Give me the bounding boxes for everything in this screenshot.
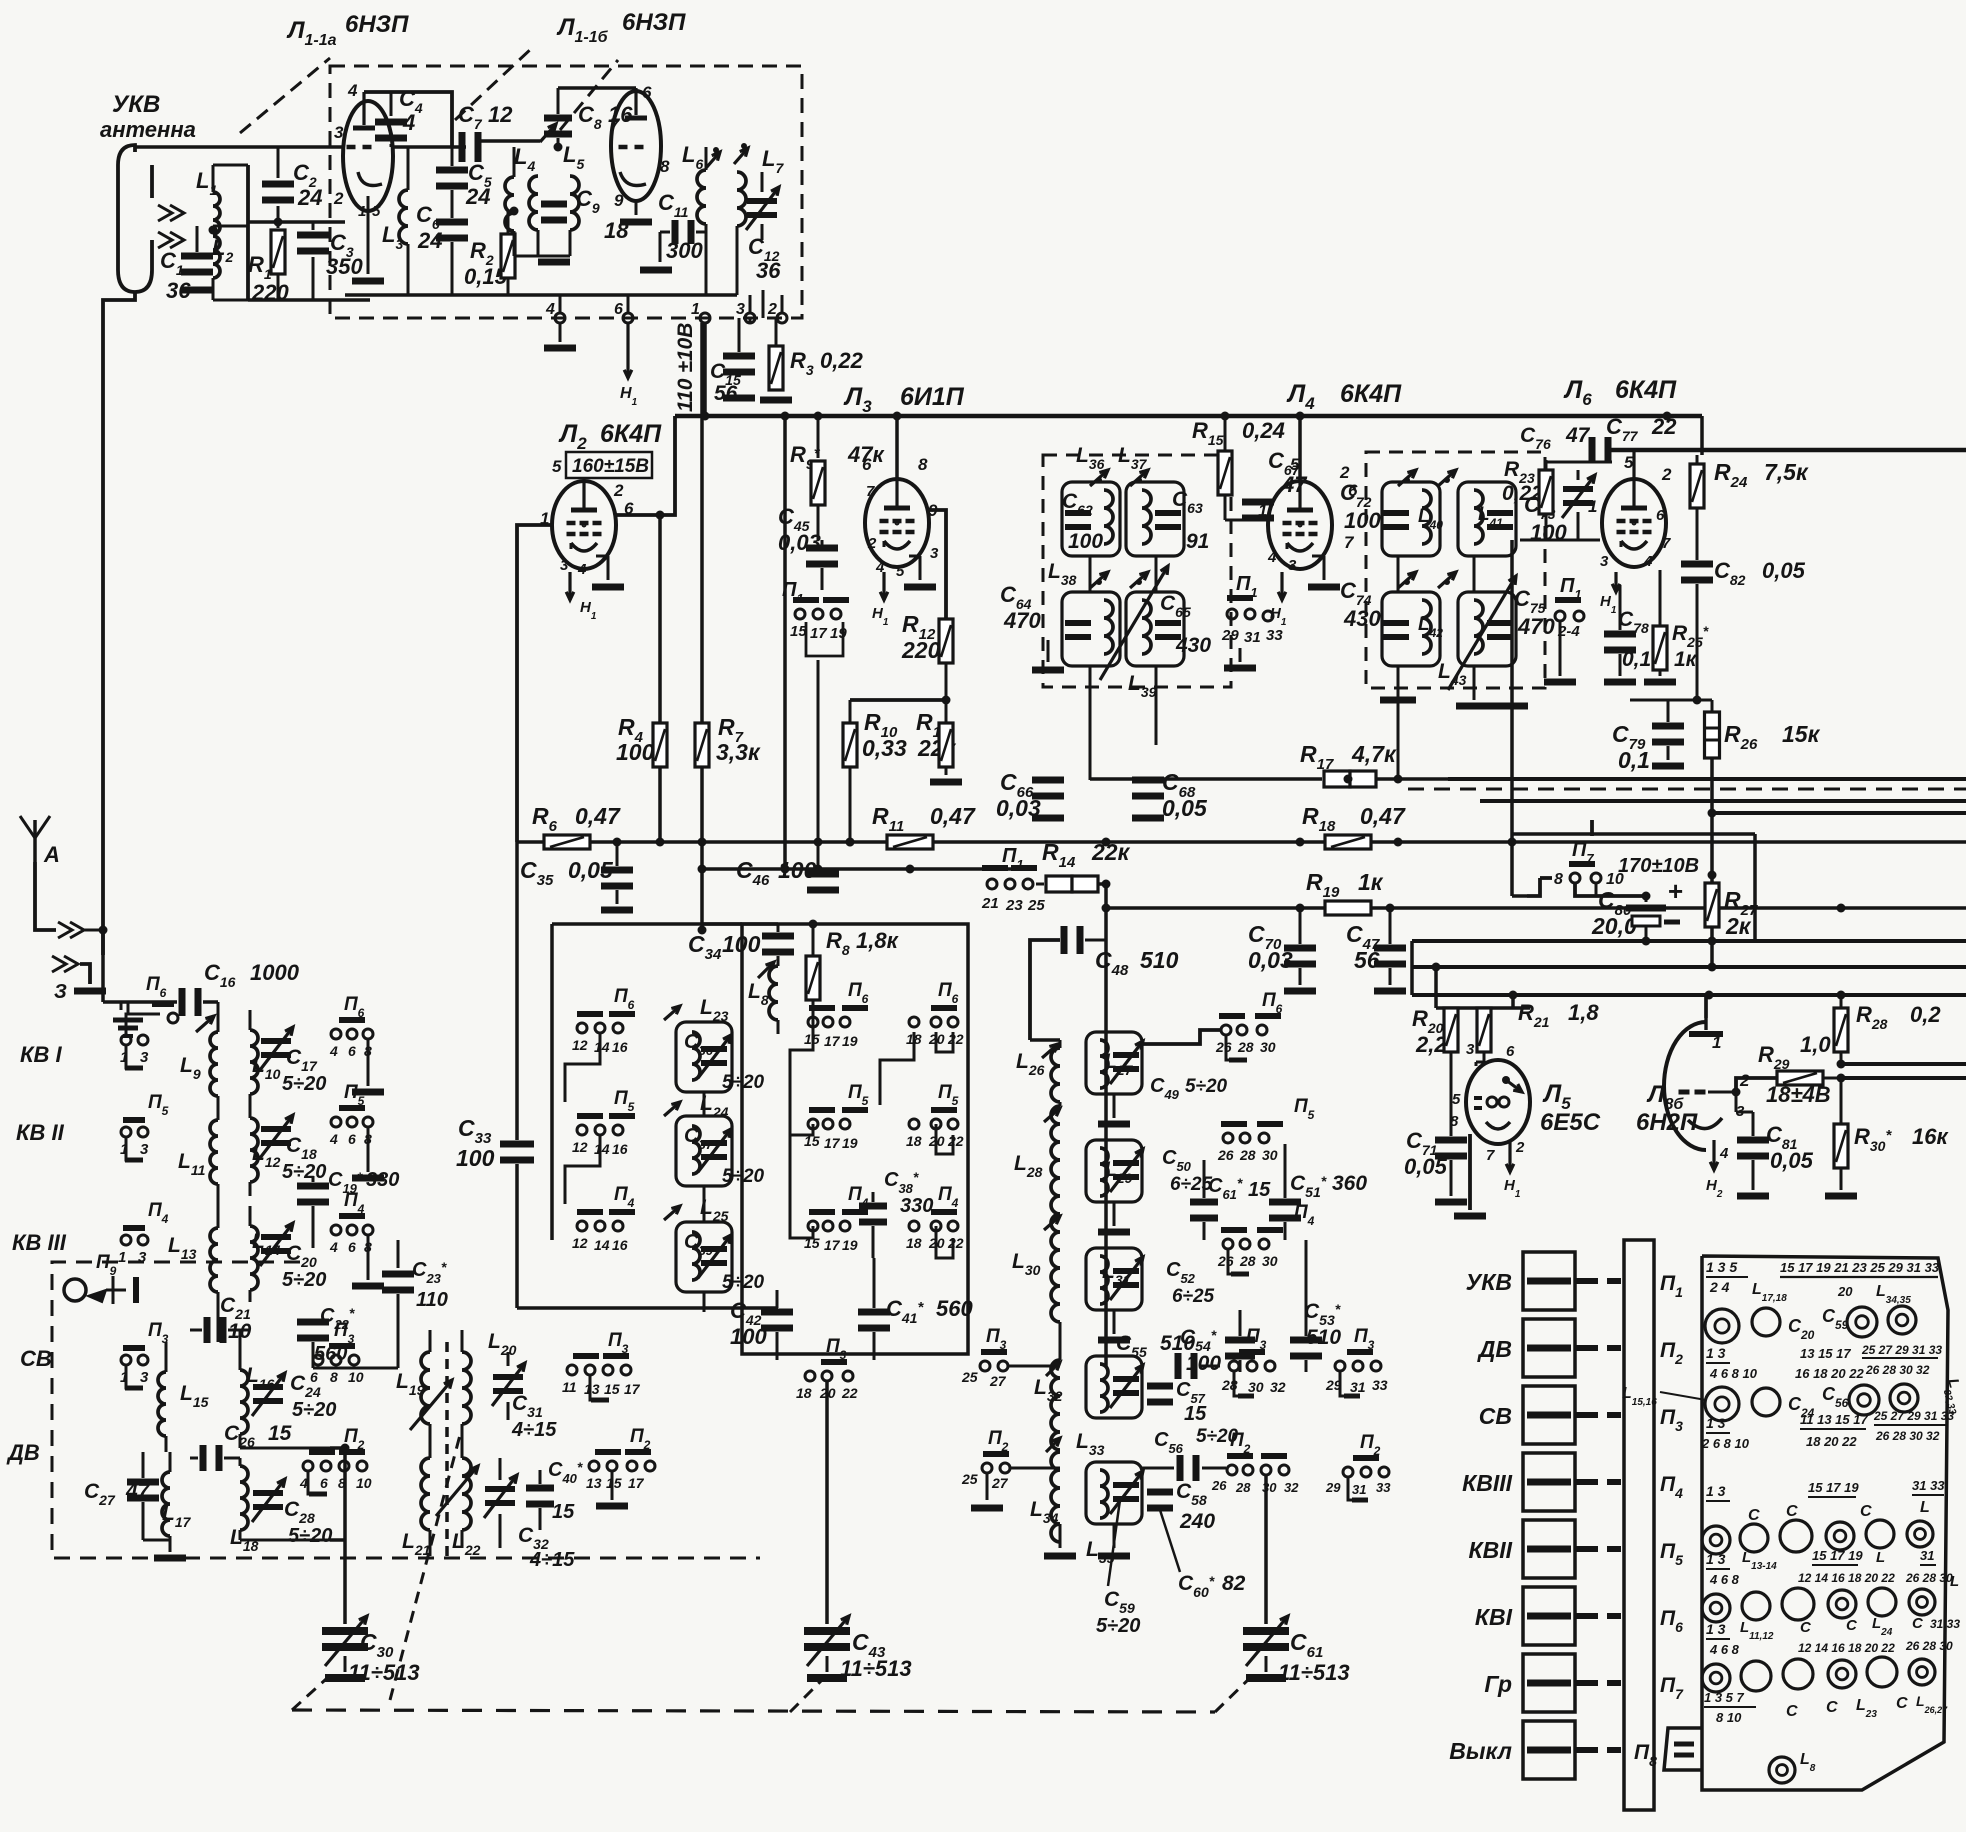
svg-text:25: 25 bbox=[961, 1369, 978, 1385]
gang diagonal to C30 bbox=[292, 1670, 336, 1710]
svg-text:16 18 20 22: 16 18 20 22 bbox=[1795, 1366, 1864, 1381]
svg-text:6: 6 bbox=[320, 1475, 328, 1491]
svg-text:4: 4 bbox=[545, 301, 555, 318]
antenna UKV folded dipole bbox=[118, 145, 152, 292]
svg-text:16: 16 bbox=[612, 1237, 628, 1253]
svg-text:13: 13 bbox=[584, 1381, 600, 1397]
wire line 941 bbox=[1412, 939, 1966, 943]
wire П7 wiring bbox=[1575, 884, 1646, 896]
svg-text:14: 14 bbox=[594, 1039, 610, 1055]
П8 tab bbox=[1664, 1728, 1702, 1770]
svg-text:6К4П: 6К4П bbox=[1340, 380, 1402, 408]
trimmer arrows top bbox=[1090, 470, 1108, 486]
svg-text:470: 470 bbox=[1517, 614, 1555, 639]
svg-text:4: 4 bbox=[329, 1239, 338, 1255]
svg-text:26: 26 bbox=[1215, 1039, 1232, 1055]
wire Л8б cathode to C81 bbox=[1736, 1111, 1753, 1114]
svg-text:1: 1 bbox=[1588, 497, 1597, 516]
dashed leader to Л1а bbox=[240, 58, 330, 133]
svg-text:21: 21 bbox=[981, 895, 999, 912]
svg-text:ДВ: ДВ bbox=[1477, 1336, 1512, 1362]
svg-text:А: А bbox=[43, 842, 60, 867]
svg-text:КВI: КВI bbox=[1475, 1604, 1513, 1630]
svg-text:560: 560 bbox=[936, 1296, 973, 1321]
svg-text:5÷20: 5÷20 bbox=[1185, 1076, 1228, 1097]
svg-text:0,47: 0,47 bbox=[575, 803, 621, 829]
wire osc to C43 bbox=[825, 1382, 829, 1624]
wire L1-L2 tap bbox=[213, 225, 248, 228]
svg-text:5÷20: 5÷20 bbox=[722, 1272, 765, 1293]
svg-text:100: 100 bbox=[616, 739, 655, 765]
svg-text:2: 2 bbox=[613, 481, 624, 500]
earth stub bbox=[120, 1002, 123, 1010]
board kv2 coils bbox=[1702, 1594, 1730, 1622]
svg-text:8: 8 bbox=[1450, 1113, 1459, 1130]
svg-text:25: 25 bbox=[961, 1471, 978, 1487]
svg-text:+: + bbox=[1668, 876, 1683, 906]
svg-text:110: 110 bbox=[416, 1289, 448, 1311]
board kv1 coils bbox=[1702, 1664, 1730, 1692]
wire vertical 785 feed bbox=[783, 416, 787, 869]
svg-text:29: 29 bbox=[1221, 627, 1239, 644]
wire 1513 to Л5 bbox=[1484, 1007, 1513, 1009]
svg-text:30: 30 bbox=[1260, 1039, 1276, 1055]
svg-text:СВ: СВ bbox=[1479, 1403, 1512, 1429]
svg-text:31: 31 bbox=[1244, 629, 1261, 646]
svg-text:430: 430 bbox=[1343, 606, 1381, 631]
svg-text:5÷20: 5÷20 bbox=[282, 1269, 326, 1291]
svg-text:16к: 16к bbox=[1912, 1124, 1949, 1149]
svg-text:2: 2 bbox=[767, 301, 777, 318]
heater arrow Л5 bbox=[1508, 1142, 1511, 1172]
svg-text:4 6 8 10: 4 6 8 10 bbox=[1709, 1366, 1758, 1381]
svg-text:3: 3 bbox=[140, 1141, 149, 1158]
svg-text:12: 12 bbox=[572, 1235, 588, 1251]
cathode bar Л1а bbox=[352, 278, 384, 285]
wire IF2 verticals bbox=[1397, 556, 1400, 592]
svg-text:антенна: антенна bbox=[100, 117, 196, 142]
svg-text:100: 100 bbox=[1344, 508, 1381, 533]
svg-text:4 6 8: 4 6 8 bbox=[1709, 1572, 1740, 1587]
svg-text:5÷20: 5÷20 bbox=[282, 1073, 326, 1095]
svg-text:15 17 19: 15 17 19 bbox=[1812, 1548, 1863, 1563]
svg-text:1 3: 1 3 bbox=[1706, 1551, 1726, 1567]
wire line 801 bbox=[1480, 799, 1966, 803]
svg-text:16: 16 bbox=[612, 1141, 628, 1157]
wire top rail to cascade bbox=[552, 922, 742, 926]
svg-text:11: 11 bbox=[562, 1379, 577, 1395]
wire Л2 cathode gnd bbox=[596, 555, 608, 558]
switch П6 1-3 bbox=[121, 1035, 131, 1045]
svg-text:19: 19 bbox=[830, 625, 847, 642]
wire 1592 vertical bbox=[1591, 820, 1593, 896]
series cap C58 out wire bbox=[1177, 1455, 1184, 1481]
svg-text:27: 27 bbox=[991, 1475, 1009, 1491]
wire C33 bottom rail bbox=[517, 1306, 778, 1310]
svg-text:7: 7 bbox=[1662, 535, 1671, 552]
wire Л4 cathode gnd bbox=[1312, 555, 1324, 558]
svg-text:8: 8 bbox=[330, 1369, 338, 1385]
svg-text:18: 18 bbox=[906, 1133, 922, 1149]
svg-text:1: 1 bbox=[691, 301, 700, 318]
svg-text:33: 33 bbox=[1376, 1480, 1391, 1495]
svg-text:C: C bbox=[1826, 1699, 1838, 1716]
svg-text:17: 17 bbox=[810, 625, 827, 642]
svg-text:1,8: 1,8 bbox=[1568, 1000, 1599, 1025]
wire right col verticals bbox=[1410, 941, 1414, 995]
svg-text:6: 6 bbox=[348, 1131, 356, 1147]
svg-text:0,05: 0,05 bbox=[1162, 795, 1208, 821]
tube Л2 6К4П bbox=[583, 524, 585, 526]
svg-text:350: 350 bbox=[326, 254, 363, 279]
svg-text:15: 15 bbox=[268, 1422, 292, 1445]
svg-text:17: 17 bbox=[624, 1381, 641, 1397]
svg-text:14: 14 bbox=[594, 1237, 610, 1253]
junction dots buses bbox=[846, 838, 855, 847]
svg-text:4: 4 bbox=[1267, 549, 1277, 566]
svg-text:0,22: 0,22 bbox=[820, 348, 864, 373]
svg-text:0,2: 0,2 bbox=[1910, 1002, 1941, 1027]
wire tube1a leads bbox=[337, 146, 343, 149]
svg-text:15: 15 bbox=[1248, 1179, 1271, 1201]
svg-text:22: 22 bbox=[1651, 414, 1677, 439]
ground below C1 bbox=[181, 287, 213, 294]
svg-text:470: 470 bbox=[1003, 608, 1041, 633]
svg-text:C: C bbox=[1846, 1617, 1858, 1634]
svg-text:15: 15 bbox=[552, 1501, 575, 1523]
wire Л3 top bbox=[895, 416, 899, 479]
switch board outline bbox=[1702, 1256, 1948, 1790]
wire Л3 cathode gnd bbox=[909, 555, 920, 558]
svg-text:1,0: 1,0 bbox=[1800, 1032, 1831, 1057]
svg-text:22: 22 bbox=[947, 1235, 964, 1251]
heater arrow Н1 Л2 bbox=[568, 572, 571, 600]
svg-text:6Н2П: 6Н2П bbox=[1636, 1109, 1698, 1136]
board kv3 coils bbox=[1702, 1526, 1730, 1554]
tube Л3 6И1П bbox=[896, 522, 898, 524]
svg-text:8: 8 bbox=[1554, 871, 1563, 888]
svg-text:31: 31 bbox=[1920, 1548, 1934, 1563]
svg-text:23: 23 bbox=[1005, 897, 1023, 914]
svg-text:510: 510 bbox=[1160, 1332, 1195, 1355]
svg-text:3: 3 bbox=[334, 123, 344, 142]
svg-text:100: 100 bbox=[778, 857, 817, 883]
svg-text:2: 2 bbox=[333, 189, 344, 208]
svg-text:0,24: 0,24 bbox=[1242, 418, 1285, 443]
wire l-chain down bbox=[1059, 1102, 1061, 1106]
svg-text:110 ±10В: 110 ±10В bbox=[674, 323, 697, 412]
svg-text:2: 2 bbox=[867, 535, 877, 552]
band button КВII bbox=[1523, 1520, 1575, 1578]
svg-text:240: 240 bbox=[1179, 1510, 1215, 1533]
wire Л8б grid node bbox=[1735, 1092, 1738, 1112]
svg-text:C: C bbox=[1912, 1615, 1924, 1632]
wire pin4 ground bbox=[559, 300, 562, 313]
svg-text:91: 91 bbox=[1186, 530, 1209, 553]
svg-text:Гр: Гр bbox=[1484, 1671, 1512, 1697]
wire anode bus B+ bbox=[675, 414, 1702, 419]
svg-text:24: 24 bbox=[297, 185, 322, 210]
band button СВ bbox=[1523, 1386, 1575, 1444]
svg-text:5: 5 bbox=[1452, 1091, 1461, 1108]
svg-text:6: 6 bbox=[348, 1043, 356, 1059]
wire L31 can gnd bbox=[1113, 1310, 1116, 1334]
svg-text:26 28 30: 26 28 30 bbox=[1905, 1571, 1953, 1585]
wire bus 995 junction verticals bbox=[1511, 995, 1515, 1008]
wire П6 mid links bbox=[565, 1034, 600, 1102]
svg-text:32: 32 bbox=[1284, 1480, 1299, 1495]
wire R14 junction down bbox=[1104, 884, 1108, 1366]
svg-text:220: 220 bbox=[901, 637, 941, 663]
svg-text:15: 15 bbox=[1184, 1403, 1207, 1425]
wire Л2 anode bbox=[616, 416, 675, 515]
svg-text:6И1П: 6И1П bbox=[900, 383, 965, 411]
svg-text:100: 100 bbox=[456, 1145, 495, 1171]
svg-text:11 13 15 17: 11 13 15 17 bbox=[1800, 1412, 1868, 1427]
svg-text:7: 7 bbox=[866, 483, 875, 500]
wire ukv bottom rail bbox=[248, 298, 370, 302]
wire lines 1064 1078 right bbox=[1841, 1062, 1966, 1066]
svg-text:C: C bbox=[1786, 1503, 1798, 1520]
svg-text:25 27 29 31 33: 25 27 29 31 33 bbox=[1861, 1343, 1942, 1357]
svg-text:4 6 8: 4 6 8 bbox=[1709, 1642, 1740, 1657]
svg-text:СВ: СВ bbox=[20, 1346, 52, 1371]
svg-text:6: 6 bbox=[310, 1369, 318, 1385]
svg-text:6÷25: 6÷25 bbox=[1170, 1174, 1213, 1195]
svg-text:L: L bbox=[1950, 1573, 1959, 1590]
wire AGC line R6 bbox=[517, 840, 1966, 844]
svg-text:3: 3 bbox=[736, 301, 745, 318]
svg-text:15 17 19: 15 17 19 bbox=[1808, 1480, 1859, 1495]
IF can L41/C73 bbox=[1458, 482, 1516, 556]
wire АПЧ box route bbox=[1512, 832, 1755, 836]
wire IF2 bottom bbox=[1397, 760, 1400, 779]
svg-text:15: 15 bbox=[606, 1475, 622, 1491]
svg-text:19: 19 bbox=[842, 1135, 858, 1151]
svg-text:КВ I: КВ I bbox=[20, 1042, 63, 1067]
gang diagonal to C43 bbox=[790, 1678, 824, 1712]
band button КВI bbox=[1523, 1587, 1575, 1645]
wire L27 to П6 bbox=[1142, 1030, 1220, 1044]
wire DV bottom to C30 col bbox=[330, 1538, 345, 1542]
hf can L/C58 bbox=[1086, 1462, 1142, 1524]
wire R19 line bbox=[1106, 906, 1966, 910]
wire 776 line right bbox=[1448, 777, 1966, 781]
svg-text:36: 36 bbox=[756, 258, 781, 283]
wire R24 col down bbox=[1696, 610, 1699, 700]
wire П2 to L34 bbox=[1011, 1467, 1060, 1470]
svg-text:8 10: 8 10 bbox=[1716, 1710, 1742, 1725]
svg-text:3: 3 bbox=[560, 557, 569, 574]
svg-text:4,7к: 4,7к bbox=[1351, 741, 1397, 767]
svg-text:ДВ: ДВ bbox=[6, 1440, 40, 1465]
svg-text:8: 8 bbox=[918, 455, 928, 474]
board coils dv right bbox=[1849, 1385, 1879, 1415]
svg-text:6: 6 bbox=[862, 455, 872, 474]
wire Л8б plate up bbox=[1704, 995, 1708, 1018]
svg-text:4: 4 bbox=[1643, 553, 1653, 570]
svg-text:9: 9 bbox=[614, 191, 624, 210]
svg-text:УКВ: УКВ bbox=[112, 91, 160, 118]
gang diagonal to C61 bbox=[1215, 1676, 1252, 1712]
wire C16 node down bbox=[217, 1002, 220, 1032]
wires trans to switches bbox=[462, 1329, 560, 1331]
svg-text:7,5к: 7,5к bbox=[1764, 459, 1809, 485]
wire grid row bbox=[391, 145, 466, 148]
switch shaft bar bbox=[1624, 1240, 1654, 1810]
svg-text:330: 330 bbox=[366, 1169, 399, 1191]
svg-text:5÷20: 5÷20 bbox=[292, 1399, 336, 1421]
svg-text:26: 26 bbox=[1217, 1147, 1234, 1163]
svg-text:16: 16 bbox=[612, 1039, 628, 1055]
wire 1436 к R20 rail bbox=[1434, 967, 1438, 1008]
svg-text:26 28 30: 26 28 30 bbox=[1905, 1639, 1953, 1653]
arrow through L19 bbox=[410, 1380, 452, 1430]
tube Л6 6К4П bbox=[1633, 522, 1635, 524]
svg-text:15: 15 bbox=[604, 1381, 620, 1397]
wire cans verticals bbox=[1089, 556, 1092, 592]
wire CB bottom to C30 bbox=[330, 1446, 345, 1450]
wire pin stubs bbox=[559, 295, 562, 313]
svg-text:30: 30 bbox=[1262, 1253, 1278, 1269]
svg-text:4÷15: 4÷15 bbox=[511, 1419, 557, 1441]
wire 1266 down to C61 bbox=[1264, 1476, 1268, 1624]
wire R7 column bbox=[700, 323, 704, 842]
svg-text:0,33: 0,33 bbox=[862, 735, 907, 761]
svg-text:4: 4 bbox=[347, 81, 358, 100]
wire vertical right top bbox=[1700, 416, 1704, 455]
svg-text:13: 13 bbox=[586, 1475, 602, 1491]
dashed UKV unit box bbox=[330, 66, 802, 318]
wire input node to tube bbox=[246, 165, 250, 300]
svg-text:30: 30 bbox=[1248, 1379, 1264, 1395]
svg-text:7: 7 bbox=[1486, 1147, 1495, 1164]
svg-text:18: 18 bbox=[906, 1235, 922, 1251]
svg-text:27: 27 bbox=[989, 1373, 1007, 1389]
svg-text:0,05: 0,05 bbox=[1770, 1148, 1814, 1173]
svg-text:3: 3 bbox=[1288, 557, 1297, 574]
svg-text:C: C bbox=[1860, 1503, 1872, 1520]
svg-text:3: 3 bbox=[1466, 1041, 1475, 1058]
ground kv1 bbox=[367, 1040, 370, 1086]
tuning arrow L39 bbox=[1100, 566, 1168, 680]
svg-text:30: 30 bbox=[1262, 1147, 1278, 1163]
svg-text:КВ II: КВ II bbox=[16, 1120, 65, 1145]
wire dipole feed arrows bbox=[158, 205, 184, 221]
heater arrow Н1 Л3 bbox=[882, 572, 885, 600]
svg-text:1: 1 bbox=[118, 1249, 126, 1266]
wire line C46/P1 bbox=[702, 867, 1030, 871]
svg-text:18: 18 bbox=[796, 1385, 812, 1401]
svg-text:33: 33 bbox=[1266, 627, 1283, 644]
ground ДВ bbox=[143, 1539, 170, 1542]
svg-text:22к: 22к bbox=[1091, 839, 1131, 865]
svg-text:1 3: 1 3 bbox=[1706, 1621, 1726, 1637]
svg-text:1к: 1к bbox=[1358, 869, 1384, 895]
wire cascade vertical bbox=[550, 924, 554, 1240]
svg-text:19: 19 bbox=[842, 1033, 858, 1049]
svg-text:6НЗП: 6НЗП bbox=[345, 11, 409, 38]
svg-text:3: 3 bbox=[1600, 553, 1609, 570]
svg-text:1: 1 bbox=[1712, 1033, 1721, 1052]
dashed tuner box left bbox=[52, 1262, 760, 1558]
svg-text:16: 16 bbox=[608, 102, 633, 127]
board coil C24 bbox=[1752, 1388, 1780, 1416]
svg-text:28: 28 bbox=[1237, 1039, 1254, 1055]
svg-text:3: 3 bbox=[140, 1369, 149, 1386]
dashed gang diagonal trans bbox=[390, 1435, 460, 1700]
svg-text:6: 6 bbox=[348, 1239, 356, 1255]
svg-text:15к: 15к bbox=[1782, 721, 1821, 747]
svg-text:17: 17 bbox=[824, 1237, 841, 1253]
svg-text:3: 3 bbox=[930, 545, 939, 562]
svg-text:13 15 17: 13 15 17 bbox=[1800, 1346, 1851, 1361]
svg-text:КВ III: КВ III bbox=[12, 1230, 67, 1255]
wire П7 from C77 node bbox=[1590, 820, 1594, 836]
wire box bottom rail bbox=[345, 293, 737, 296]
svg-text:12: 12 bbox=[572, 1139, 588, 1155]
svg-text:1,8к: 1,8к bbox=[856, 928, 900, 953]
wire line 967 bbox=[1412, 965, 1966, 969]
svg-text:C: C bbox=[1896, 1695, 1908, 1712]
board coil L17,18 bbox=[1705, 1309, 1739, 1343]
earth ground symbol bbox=[113, 1018, 143, 1023]
svg-text:4: 4 bbox=[1719, 1145, 1729, 1162]
wire mid column top entry bbox=[552, 1008, 582, 1028]
tuning arrow L43 bbox=[1448, 576, 1516, 690]
svg-text:6: 6 bbox=[642, 83, 652, 102]
hf can L/C57 bbox=[1086, 1356, 1142, 1418]
svg-text:5: 5 bbox=[552, 457, 562, 476]
board coil C20 bbox=[1752, 1308, 1780, 1336]
svg-text:15 17 19 21 23 25 29 31 33: 15 17 19 21 23 25 29 31 33 bbox=[1780, 1260, 1940, 1275]
svg-text:КВIII: КВIII bbox=[1462, 1470, 1513, 1496]
svg-text:6: 6 bbox=[1506, 1043, 1515, 1060]
matrix wires bbox=[742, 923, 813, 925]
svg-text:360: 360 bbox=[1332, 1172, 1367, 1195]
svg-text:C: C bbox=[1786, 1703, 1798, 1720]
wire c48 to L26 top bbox=[1030, 1038, 1060, 1042]
svg-text:25 27 29 31 33: 25 27 29 31 33 bbox=[1873, 1409, 1954, 1423]
svg-text:12 14 16 18 20 22: 12 14 16 18 20 22 bbox=[1798, 1641, 1895, 1655]
svg-text:0,22: 0,22 bbox=[1502, 482, 1543, 505]
svg-text:4: 4 bbox=[577, 561, 587, 578]
wire tube1b cathode bbox=[635, 201, 638, 215]
dashed leader to Л1б bbox=[560, 60, 618, 130]
wire antenna arrows bbox=[58, 922, 84, 938]
wire Л2 screen down bbox=[658, 515, 662, 842]
ground antenna З bbox=[52, 956, 78, 972]
svg-text:22: 22 bbox=[841, 1385, 858, 1401]
wire IF1 bottom to R17 bbox=[1090, 777, 1322, 781]
svg-text:8: 8 bbox=[660, 157, 670, 176]
svg-text:2 4: 2 4 bbox=[1709, 1279, 1730, 1295]
svg-text:22: 22 bbox=[947, 1031, 964, 1047]
triode Л1а bbox=[343, 101, 393, 211]
svg-text:2: 2 bbox=[1739, 1071, 1750, 1090]
svg-text:7: 7 bbox=[1344, 533, 1355, 552]
tube Л8б 6Н2П half-triode bbox=[1664, 1022, 1706, 1150]
dashed IF transformer box 2 bbox=[1366, 452, 1545, 688]
svg-text:100: 100 bbox=[1068, 530, 1103, 553]
oscillator matrix box bbox=[742, 924, 968, 1354]
heater arrow Л8б bbox=[1712, 1140, 1715, 1170]
antenna A symbol bbox=[33, 820, 37, 862]
svg-text:1000: 1000 bbox=[250, 960, 300, 985]
svg-text:10: 10 bbox=[348, 1369, 364, 1385]
svg-text:4: 4 bbox=[329, 1131, 338, 1147]
IF can L43/C75 bbox=[1458, 592, 1516, 666]
